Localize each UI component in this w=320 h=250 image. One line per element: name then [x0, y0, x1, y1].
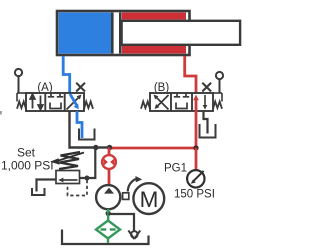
cylinder C1 cap-end blue fluid — [59, 13, 112, 54]
strainer S1 diamond — [96, 221, 120, 239]
cylinder C1 rod-end red fluid top — [122, 13, 186, 20]
svg-text:1,000 PSI: 1,000 PSI — [1, 159, 54, 173]
valve B box1 crossed arrows — [154, 95, 169, 110]
wire valve A P-port down — [70, 111, 96, 148]
valve A box1 arrows — [30, 94, 43, 109]
valve B right spring — [213, 102, 222, 109]
wire valve B T-port to tank — [204, 111, 208, 134]
valve A right spring — [84, 102, 93, 109]
coupling pump-motor — [123, 193, 129, 200]
svg-text:M: M — [140, 187, 159, 212]
relief valve RV1 spring — [59, 152, 80, 169]
valve A box2 blocked center — [48, 93, 63, 109]
motor M1 circle — [133, 183, 164, 214]
relief valve RV1 internal arrow — [58, 178, 77, 183]
tank under valve A — [79, 129, 95, 140]
relief valve RV1 adjust arrow — [50, 153, 84, 165]
valve A body — [26, 93, 84, 111]
flow meter FM1 circle — [102, 155, 116, 169]
wire relief outlet to tank — [37, 180, 57, 192]
node junction relief pilot — [85, 176, 90, 181]
tank under valve B — [200, 124, 216, 138]
valve A box3 crossed arrows — [67, 94, 82, 110]
valve A left spring — [17, 102, 26, 109]
check valve CV1 — [128, 230, 140, 239]
wire blue valve A T-port to tank — [77, 111, 82, 138]
wire red cylinder rod to valve B — [185, 56, 196, 94]
node junction valve B / gauge — [193, 145, 198, 150]
relief valve RV1 pilot dashed line — [68, 180, 88, 196]
left edge artifact — [0, 111, 2, 115]
wire red pump to junction upper stub — [108, 148, 111, 156]
valve B plugged port X — [202, 83, 211, 92]
wire relief inlet vertical — [80, 148, 96, 179]
gauge PG1 needle — [191, 171, 204, 184]
cylinder C1 piston — [111, 13, 122, 54]
valve B lever — [216, 72, 223, 93]
valve A left spring frame — [17, 93, 26, 102]
strainer S1 dashes — [101, 228, 116, 230]
valve B left spring — [141, 102, 150, 109]
flow meter FM1 triangles — [104, 158, 115, 166]
wire pump inlet to check valve — [108, 214, 134, 231]
tank main reservoir — [62, 230, 149, 245]
gauge PG1 circle — [187, 170, 204, 187]
svg-text:PG1: PG1 — [164, 163, 187, 175]
tank under relief valve — [32, 188, 45, 195]
node junction pump inlet — [106, 211, 111, 216]
wire suction strainer stub green — [107, 209, 109, 220]
wire main pressure line black segment — [96, 146, 110, 148]
wire blue cylinder cap to valve A — [63, 56, 69, 93]
valve B right spring frame — [213, 93, 222, 102]
cylinder C1 barrel — [57, 11, 190, 55]
svg-text:Set: Set — [17, 145, 36, 159]
valve B box3 red up arrow — [193, 95, 207, 112]
cylinder C1 rod — [122, 21, 241, 45]
pump P1 outlet triangle — [104, 188, 114, 194]
svg-text:150 PSI: 150 PSI — [174, 189, 215, 201]
wire strainer to tank green — [107, 239, 109, 243]
wire main pressure line red segment — [110, 147, 196, 150]
pump P1 circle — [96, 185, 120, 209]
motor M1 rotation arrow — [128, 176, 142, 192]
valve A plugged port X — [76, 83, 85, 92]
cylinder C1 rod-end red fluid bottom — [122, 45, 186, 54]
node junction pump line — [107, 145, 112, 150]
wire red valve B P-port down — [195, 111, 198, 148]
valve A lever — [15, 69, 22, 93]
wire red gauge drop — [195, 148, 198, 170]
node junction valve A / relief — [93, 145, 98, 150]
valve B body — [150, 93, 213, 111]
wire red flow meter to pump — [108, 168, 111, 186]
relief valve RV1 box — [56, 171, 80, 184]
valve B box2 blocked center — [174, 93, 189, 109]
